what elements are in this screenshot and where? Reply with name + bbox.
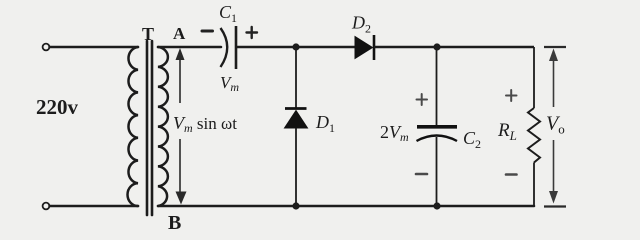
- diode D2: [355, 35, 374, 60]
- junction node top D1: [292, 43, 299, 50]
- terminal top-left: [43, 44, 50, 51]
- wire C1 to D2: [237, 46, 355, 49]
- wire D2 to RL corner: [374, 46, 534, 49]
- RL minus sign: [506, 173, 517, 176]
- svg-text:Vm sin ωt: Vm sin ωt: [173, 113, 237, 135]
- wire top-left: [50, 46, 139, 49]
- C2 minus sign: [416, 173, 427, 176]
- transformer T secondary winding: [158, 47, 168, 206]
- svg-text:B: B: [168, 212, 181, 234]
- junction node bottom D1: [292, 202, 299, 209]
- Vo arrow upper: [549, 49, 558, 204]
- wire C2 branch lower: [436, 137, 438, 206]
- Vo bottom reference bar: [544, 205, 566, 207]
- capacitor C2 plate bottom curved: [417, 136, 458, 142]
- junction node bottom C2: [433, 202, 440, 209]
- RL plus sign: [506, 90, 517, 101]
- transformer core line 1: [146, 41, 149, 215]
- wire D1 branch lower: [295, 128, 297, 206]
- junction node top C2: [433, 43, 440, 50]
- Vo top reference bar: [544, 46, 566, 48]
- Vm sin wt arrow: [176, 48, 187, 205]
- terminal bottom-left: [43, 203, 50, 210]
- wire D1 branch upper: [295, 47, 297, 108]
- svg-text:A: A: [173, 24, 186, 43]
- transformer core line 2: [151, 41, 154, 215]
- C1 plus sign: [247, 27, 258, 38]
- capacitor C1 plate left curved: [221, 28, 228, 67]
- resistor RL zigzag: [528, 108, 540, 163]
- wire RL branch lower: [533, 163, 535, 207]
- capacitor C1 plate right: [235, 26, 238, 69]
- wire bottom-left: [50, 205, 139, 208]
- wire C2 branch upper: [436, 47, 438, 125]
- capacitor C2 plate top: [417, 125, 457, 129]
- diode D1: [285, 109, 308, 129]
- C1 minus sign: [202, 30, 213, 33]
- svg-text:220v: 220v: [36, 95, 79, 119]
- wire secondary top to C1: [158, 46, 221, 49]
- transformer T primary winding: [128, 47, 138, 206]
- wire RL branch upper: [533, 47, 535, 108]
- C2 plus sign: [417, 94, 428, 105]
- svg-text:T: T: [142, 24, 154, 44]
- wire secondary bottom: [158, 205, 534, 208]
